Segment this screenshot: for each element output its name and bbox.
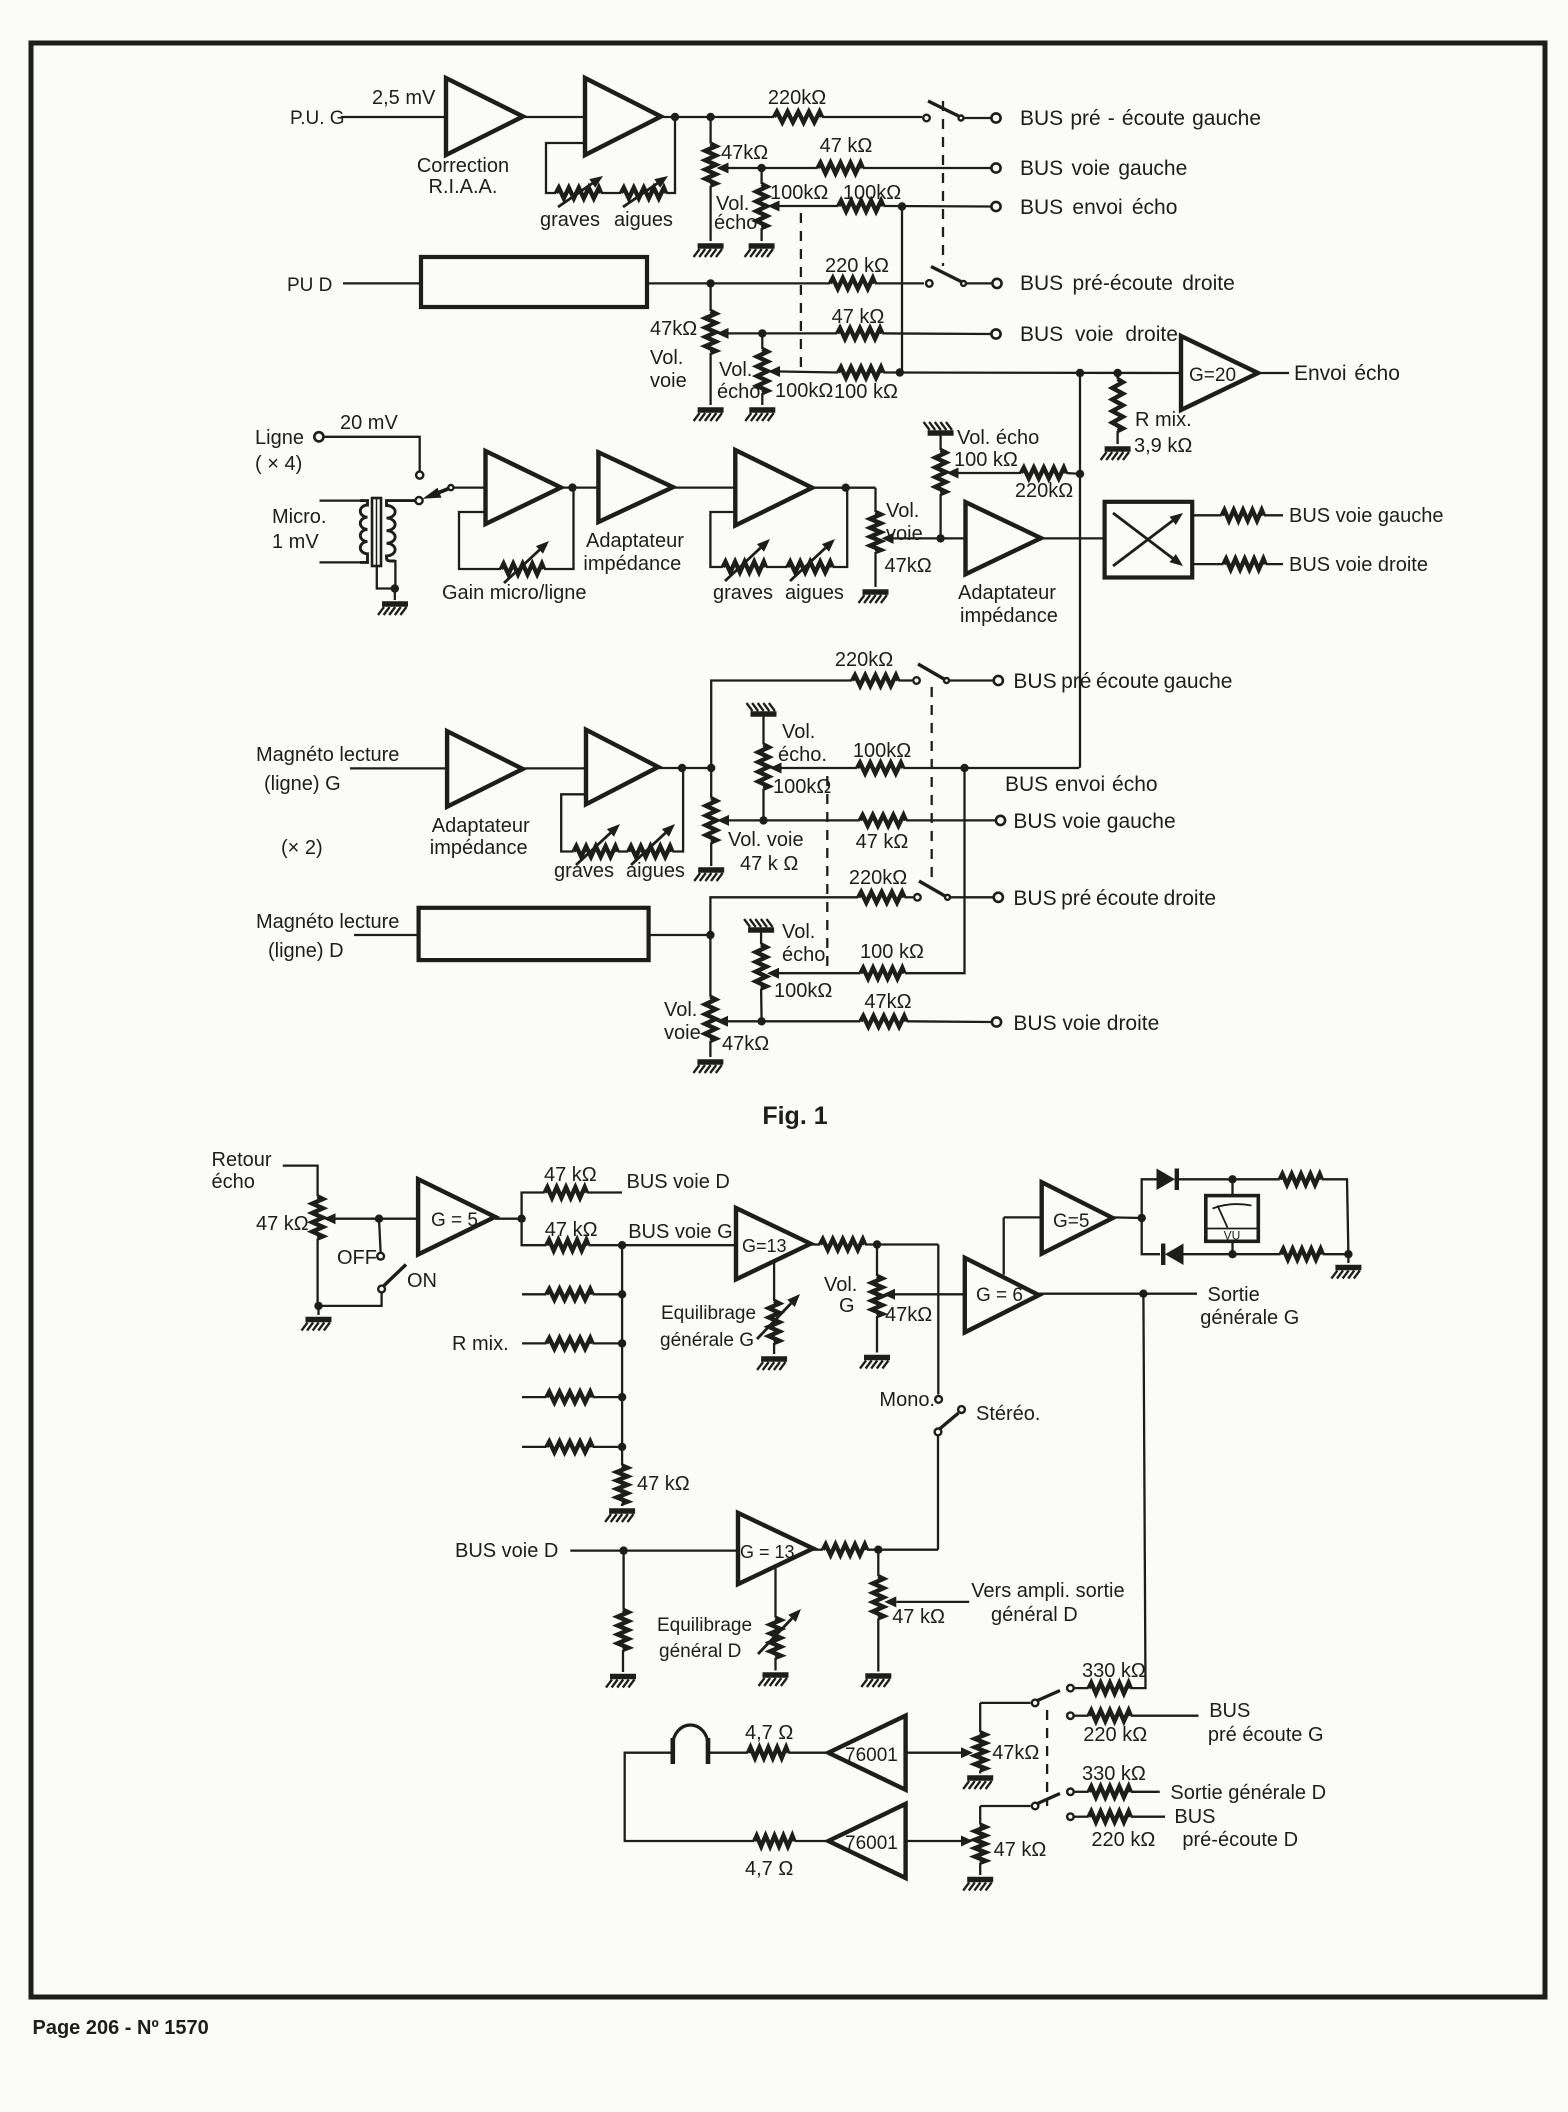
svg-text:47 kΩ: 47 kΩ bbox=[994, 1839, 1047, 1861]
wire Vol écho pot to junction bbox=[939, 494, 941, 538]
resistor 47kΩ voie droite magnéto bbox=[861, 1016, 907, 1027]
terminal BUS envoi écho bbox=[991, 202, 1000, 211]
wire to label bbox=[1264, 514, 1283, 516]
wire A5 output bbox=[812, 487, 875, 489]
junction magnéto G node bbox=[707, 764, 715, 772]
svg-text:impédance: impédance bbox=[430, 837, 528, 859]
svg-text:100 kΩ: 100 kΩ bbox=[834, 381, 898, 403]
wire to ground bbox=[1347, 1254, 1349, 1263]
wire wiper to 100k resistor envoi écho G bbox=[780, 205, 839, 207]
wire to ground bbox=[394, 589, 396, 601]
op-amp G=5 VU driver bbox=[1042, 1182, 1113, 1254]
matrix cross box bbox=[1105, 502, 1193, 578]
switch S5 contact 330k bbox=[1067, 1685, 1074, 1692]
svg-text:47kΩ: 47kΩ bbox=[992, 1742, 1039, 1764]
svg-text:graves: graves bbox=[713, 582, 773, 604]
svg-text:100 kΩ: 100 kΩ bbox=[860, 941, 924, 963]
wire node to Vol voie pot D bbox=[709, 283, 711, 311]
resistor 47kΩ voie gauche magnéto bbox=[860, 815, 906, 826]
junction R mix 4 bbox=[618, 1443, 626, 1451]
wiper arrow Vol voie magnéto G bbox=[717, 815, 729, 826]
wire down branch to 47k bbox=[522, 1219, 547, 1246]
ground below Vol écho pot D bbox=[745, 410, 775, 421]
resistor 220kΩ pré-écoute D bbox=[830, 278, 875, 289]
op-amp A2 tone stage G bbox=[585, 78, 661, 155]
wire node to Vol voie pot G bbox=[709, 117, 711, 144]
wire pot G bottom to ground bbox=[709, 186, 711, 241]
op-amp A8 tone stage magnéto bbox=[586, 730, 658, 805]
svg-text:100kΩ: 100kΩ bbox=[774, 980, 832, 1002]
terminal Ligne input bbox=[314, 432, 323, 441]
svg-text:47 k Ω: 47 k Ω bbox=[740, 853, 798, 875]
potentiometer 47kΩ Vol voie magnéto G bbox=[706, 798, 717, 842]
wire Ligne to selector upper contact bbox=[324, 437, 420, 471]
svg-text:G = 13: G = 13 bbox=[740, 1542, 795, 1562]
wire contact to 330k bbox=[1074, 1791, 1089, 1793]
potentiometer 47kΩ casque G bbox=[975, 1732, 986, 1770]
switch mono/stéréo lever bbox=[940, 1413, 959, 1429]
svg-text:Gain micro/ligne: Gain micro/ligne bbox=[442, 582, 587, 604]
potentiometer 100kΩ Vol écho D bbox=[757, 349, 768, 393]
svg-text:BUS voie droite: BUS voie droite bbox=[1289, 554, 1428, 576]
wire sortie générale G bbox=[1039, 1293, 1197, 1295]
wire pot to ground bbox=[876, 1316, 878, 1353]
svg-text:Adaptateur: Adaptateur bbox=[958, 582, 1056, 604]
transformer T1 primary coil bbox=[360, 501, 368, 563]
svg-text:(ligne) D: (ligne) D bbox=[268, 940, 344, 962]
switch S6 pivot contact bbox=[1032, 1803, 1039, 1810]
resistor 330kΩ sortie D bbox=[1089, 1787, 1131, 1798]
svg-text:BUS pré écoute droite: BUS pré écoute droite bbox=[1013, 887, 1216, 910]
junction A3 feedback/output bbox=[568, 483, 576, 491]
junction VU bridge input bbox=[1138, 1214, 1146, 1222]
svg-text:ON: ON bbox=[407, 1270, 437, 1292]
potentiometer 47kΩ sortie D bbox=[873, 1576, 884, 1618]
svg-text:BUS voie droite: BUS voie droite bbox=[1020, 323, 1178, 346]
wiper arrow Vol écho D bbox=[768, 366, 780, 377]
wire selector to amp A3 bbox=[453, 486, 485, 488]
switch ON contact bbox=[378, 1286, 385, 1293]
wiper arrow casque pot D bbox=[961, 1836, 973, 1847]
ground Vol G bbox=[860, 1358, 890, 1369]
ground retour écho bbox=[302, 1320, 332, 1331]
svg-text:BUS voie gauche: BUS voie gauche bbox=[1020, 157, 1187, 180]
svg-text:Stéréo.: Stéréo. bbox=[976, 1403, 1040, 1425]
svg-text:R mix.: R mix. bbox=[452, 1333, 509, 1355]
junction envoi écho D-link bbox=[960, 764, 968, 772]
wire 47k to terminal voie gauche bbox=[863, 167, 991, 169]
potentiometer aigues (G) in feedback bbox=[621, 188, 666, 199]
svg-text:BUS pré écoute gauche: BUS pré écoute gauche bbox=[1013, 670, 1232, 693]
switch S4 pivot contact bbox=[914, 894, 921, 901]
ground below Vol voie ligne bbox=[859, 592, 889, 603]
switch S5 contact 220k bbox=[1067, 1712, 1074, 1719]
wire ground to Vol écho pot magnéto G bbox=[762, 714, 764, 745]
wire to terminal voie droite magnéto bbox=[907, 1020, 992, 1023]
wire wiper to amp G=5 bbox=[336, 1218, 419, 1220]
terminal BUS voie gauche bbox=[991, 163, 1000, 172]
svg-text:BUS voie D: BUS voie D bbox=[455, 1540, 558, 1562]
trimmer arrow équilibrage D bbox=[758, 1618, 792, 1654]
junction wiper / Vol écho pot D bbox=[758, 329, 766, 337]
wire block D to 220k bbox=[647, 282, 830, 284]
junction Vol G pot bbox=[873, 1240, 881, 1248]
potentiometer 47kΩ Vol G bbox=[872, 1276, 883, 1316]
wiper arrow Vol écho magnéto G bbox=[770, 763, 782, 774]
wire bus D down to 47k bbox=[622, 1551, 624, 1610]
svg-text:(× 2): (× 2) bbox=[281, 837, 323, 859]
op-amp A6 adaptateur impédance 2 bbox=[966, 502, 1042, 574]
wire G=5 output bbox=[495, 1218, 521, 1220]
resistor 220kΩ to BUS pré écoute G bbox=[1089, 1710, 1131, 1721]
svg-text:G=13: G=13 bbox=[742, 1236, 787, 1256]
junction feedback/output node bbox=[671, 113, 679, 121]
wire S1 to bus terminal bbox=[964, 117, 992, 119]
wire wiper to 47k resistor voie G bbox=[729, 167, 818, 169]
op-amp G=13 voie G bbox=[736, 1208, 811, 1279]
wire wiper to 47k voie gauche bbox=[729, 819, 860, 821]
wire pot G top bbox=[979, 1703, 981, 1732]
trimmer arrow aigues ligne bbox=[790, 548, 826, 581]
resistor VU bridge bottom bbox=[1281, 1249, 1323, 1260]
op-amp G=13 voie D bbox=[738, 1513, 813, 1584]
switch S5 lever bbox=[1038, 1691, 1061, 1701]
wire between graves and aigues bbox=[601, 192, 621, 194]
svg-text:100kΩ: 100kΩ bbox=[853, 740, 911, 762]
svg-text:Retour: Retour bbox=[212, 1149, 272, 1171]
svg-text:BUS: BUS bbox=[1209, 1700, 1250, 1722]
junction OFF/ON switch tap bbox=[375, 1215, 383, 1223]
svg-text:Vol.: Vol. bbox=[664, 999, 697, 1021]
wire A4 to A5 bbox=[673, 486, 735, 488]
wire headphone right to 4,7Ω bbox=[708, 1752, 748, 1754]
wire Vol voie pot D to ground bbox=[709, 353, 711, 405]
resistor 100kΩ envoi écho D bbox=[838, 367, 883, 378]
svg-text:220kΩ: 220kΩ bbox=[768, 87, 826, 109]
junction Vol écho pot bottom magnéto D bbox=[757, 1017, 765, 1025]
junction sortie G / pré écoute feed bbox=[1139, 1290, 1147, 1298]
resistor 220kΩ pré-écoute G bbox=[774, 112, 822, 123]
junction envoi écho bus D bbox=[896, 368, 904, 376]
wiper arrow Vol écho G bbox=[768, 201, 780, 212]
junction ground node bbox=[314, 1302, 322, 1310]
svg-text:1 mV: 1 mV bbox=[272, 531, 319, 553]
amplifier 76001 casque D bbox=[828, 1804, 905, 1878]
ground below R mix bbox=[1101, 449, 1131, 460]
ground below Vol voie magnéto D bbox=[693, 1062, 723, 1073]
svg-text:220 kΩ: 220 kΩ bbox=[1083, 1724, 1147, 1746]
wire pot to ground bbox=[979, 1863, 981, 1875]
resistor after G=13 G bbox=[820, 1239, 865, 1250]
wire to switch S3 bbox=[898, 679, 912, 681]
svg-text:47 kΩ: 47 kΩ bbox=[545, 1219, 598, 1241]
potentiometer 100kΩ Vol écho ligne bbox=[935, 450, 946, 494]
wire to Vol écho pot G bbox=[760, 168, 762, 184]
resistor 47kΩ to BUS voie G bbox=[547, 1240, 589, 1251]
ground équilibrage D bbox=[759, 1675, 789, 1686]
wire BUS voie G row to amp G=13 bbox=[589, 1244, 737, 1246]
svg-text:G: G bbox=[839, 1295, 855, 1317]
resistor R mix 4 bbox=[547, 1442, 593, 1453]
wire pot bottom down bbox=[316, 1238, 318, 1306]
switch ON lever bbox=[384, 1265, 407, 1287]
wire diode to resistor bottom bbox=[1184, 1253, 1281, 1255]
svg-text:Fig. 1: Fig. 1 bbox=[762, 1102, 827, 1130]
svg-text:Vol.: Vol. bbox=[824, 1274, 857, 1296]
svg-text:Mono.: Mono. bbox=[879, 1389, 935, 1411]
svg-text:220kΩ: 220kΩ bbox=[1015, 480, 1073, 502]
wire to Vol voie pot ligne bbox=[874, 488, 876, 512]
wiper arrow Vol écho magnéto D bbox=[767, 968, 779, 979]
terminal BUS pré-écoute droite bbox=[992, 279, 1001, 288]
resistor 47kΩ voie gauche bbox=[818, 163, 863, 174]
svg-text:Vol.: Vol. bbox=[886, 500, 919, 522]
wiper arrow Vol voie D bbox=[717, 328, 729, 339]
junction VU bridge common bbox=[1344, 1250, 1352, 1258]
wire feedback right leg to output bbox=[666, 117, 675, 193]
potentiometer 47kΩ retour écho bbox=[312, 1196, 323, 1238]
wire A6 to matrix bbox=[1041, 537, 1105, 539]
wire A7 to A8 bbox=[523, 767, 586, 769]
wire retour écho to pot bbox=[283, 1166, 318, 1197]
svg-text:générale G: générale G bbox=[660, 1330, 754, 1351]
wire contact to 330k bbox=[1074, 1687, 1089, 1689]
junction R mix 2 bbox=[618, 1339, 626, 1347]
trimmer arrow aigues magnéto bbox=[631, 833, 666, 865]
svg-text:Vol. voie: Vol. voie bbox=[728, 829, 804, 851]
svg-text:100 kΩ: 100 kΩ bbox=[954, 449, 1018, 471]
op-amp A5 tone stage ligne bbox=[735, 450, 812, 526]
wire wiper to 220k bbox=[959, 472, 1022, 474]
svg-text:BUS envoi écho: BUS envoi écho bbox=[1005, 773, 1158, 796]
switch S6 contact 220k bbox=[1067, 1813, 1074, 1820]
switch OFF contact bbox=[377, 1253, 384, 1260]
svg-text:BUS envoi écho: BUS envoi écho bbox=[1020, 196, 1177, 219]
selector contact Micro bbox=[415, 497, 422, 504]
svg-text:impédance: impédance bbox=[583, 553, 681, 575]
wire pot to ground bbox=[773, 1343, 775, 1354]
wire VU meter top lead bbox=[1231, 1179, 1233, 1195]
svg-text:330 kΩ: 330 kΩ bbox=[1082, 1660, 1146, 1682]
wire A3 feedback right leg bbox=[544, 488, 574, 569]
svg-text:Vol.: Vol. bbox=[719, 359, 752, 381]
resistor 220kΩ pré écoute D magnéto bbox=[858, 892, 904, 903]
wire envoi écho line to amp G=20 bbox=[883, 371, 1181, 374]
svg-text:générale G: générale G bbox=[1200, 1307, 1299, 1329]
wire 330k to label bbox=[1131, 1791, 1160, 1793]
svg-text:Vers ampli. sortie: Vers ampli. sortie bbox=[971, 1580, 1124, 1602]
selector pivot bbox=[448, 485, 453, 490]
ground mixing bus G bbox=[605, 1511, 635, 1522]
resistor 100kΩ envoi écho G bbox=[838, 201, 883, 212]
ground below Vol voie pot D bbox=[694, 410, 724, 421]
switch S1 lever bbox=[928, 101, 959, 116]
svg-text:220 kΩ: 220 kΩ bbox=[1091, 1829, 1155, 1851]
svg-text:4,7 Ω: 4,7 Ω bbox=[745, 1858, 793, 1880]
resistor 47kΩ mixing bus D bbox=[618, 1610, 629, 1650]
switch S3 lever bbox=[918, 664, 944, 679]
ground casque pot G bbox=[963, 1778, 993, 1789]
trimmer arrow équilibrage G bbox=[757, 1303, 791, 1339]
svg-text:Micro.: Micro. bbox=[272, 506, 326, 528]
terminal BUS voie gauche (magnéto) bbox=[996, 816, 1005, 825]
junction envoi écho vertical bus bbox=[1076, 369, 1084, 377]
switch S2 pivot contact bbox=[926, 280, 933, 287]
svg-text:écho: écho bbox=[212, 1171, 255, 1193]
wire R mix 3 to bus bbox=[593, 1396, 623, 1398]
wire S2 to terminal bbox=[966, 282, 992, 284]
svg-text:3,9 kΩ: 3,9 kΩ bbox=[1134, 435, 1192, 457]
wire wiper to amp A6 bbox=[894, 537, 966, 539]
headphone symbol bbox=[673, 1738, 708, 1764]
svg-text:écho: écho bbox=[714, 212, 757, 234]
wire A8 feedback left leg bbox=[561, 794, 586, 851]
svg-text:47 kΩ: 47 kΩ bbox=[637, 1473, 690, 1495]
svg-text:220 kΩ: 220 kΩ bbox=[825, 255, 889, 277]
resistor 100kΩ envoi écho magnéto D bbox=[861, 968, 905, 979]
wire resistor to ground bbox=[621, 1504, 623, 1507]
svg-text:Equilibrage: Equilibrage bbox=[657, 1615, 752, 1636]
wire matrix bottom output bbox=[1192, 563, 1223, 565]
wire micro primary top lead bbox=[320, 499, 361, 501]
svg-text:47 kΩ: 47 kΩ bbox=[544, 1164, 597, 1186]
wire stéréo pivot down to voie D row bbox=[937, 1435, 939, 1549]
svg-text:(ligne) G: (ligne) G bbox=[264, 773, 341, 795]
ground sortie D pot bbox=[861, 1676, 891, 1687]
wire 220k to switch S2 bbox=[875, 282, 924, 284]
op-amp G=5 retour écho bbox=[418, 1179, 495, 1254]
svg-text:47kΩ: 47kΩ bbox=[885, 555, 932, 577]
potentiometer graves (G) in feedback bbox=[556, 188, 601, 199]
wire magnéto D input bbox=[354, 934, 419, 936]
wiper arrow Vol voie ligne bbox=[882, 533, 894, 544]
junction VU meter top bbox=[1228, 1175, 1236, 1183]
svg-text:330 kΩ: 330 kΩ bbox=[1082, 1763, 1146, 1785]
svg-text:Magnéto lecture: Magnéto lecture bbox=[256, 744, 399, 766]
svg-text:écho.: écho. bbox=[778, 744, 827, 766]
wire R mix stub 4 bbox=[522, 1446, 547, 1448]
diode D1 (top, anode left) bbox=[1157, 1169, 1176, 1191]
trimmer arrow graves ligne bbox=[725, 548, 761, 581]
svg-text:G = 5: G = 5 bbox=[431, 1210, 478, 1231]
wire R mix 2 to bus bbox=[593, 1342, 623, 1344]
wire to Vol écho pot D bbox=[761, 333, 763, 349]
wire ground to Vol écho pot ligne bbox=[939, 433, 941, 450]
svg-text:Equilibrage: Equilibrage bbox=[661, 1303, 756, 1324]
svg-text:VU: VU bbox=[1224, 1229, 1241, 1243]
wire to équilibrage pot D bbox=[774, 1567, 776, 1618]
wire G=20 output bbox=[1258, 372, 1289, 374]
svg-text:47kΩ: 47kΩ bbox=[650, 318, 697, 340]
svg-text:100kΩ: 100kΩ bbox=[773, 776, 831, 798]
VU meter M1 bbox=[1206, 1196, 1259, 1242]
wire up branch to 47k bbox=[522, 1193, 545, 1219]
wire S4 to terminal bbox=[950, 896, 993, 898]
wire amp input from pot wiper D bbox=[906, 1840, 961, 1842]
svg-text:écho: écho bbox=[782, 944, 825, 966]
wire R mix 1 to bus bbox=[593, 1293, 623, 1295]
svg-text:BUS pré - écoute gauche: BUS pré - écoute gauche bbox=[1020, 107, 1261, 130]
svg-text:G = 6: G = 6 bbox=[976, 1285, 1023, 1306]
wire 100k to terminal envoi écho bbox=[883, 205, 991, 208]
selector contact Ligne bbox=[416, 472, 423, 479]
svg-text:220kΩ: 220kΩ bbox=[849, 867, 907, 889]
block equivalent channel magnéto D (empty box) bbox=[419, 908, 649, 960]
svg-text:47kΩ: 47kΩ bbox=[722, 1033, 769, 1055]
wire node down to Vol voie pot magnéto G bbox=[710, 768, 712, 798]
wiper arrow Vol voie magnéto D bbox=[716, 1016, 728, 1027]
potentiometer aigues (ligne) bbox=[788, 562, 833, 573]
junction magnéto D node bbox=[706, 931, 714, 939]
wire sortie G down to 330k switch row bbox=[1130, 1294, 1145, 1688]
wire to label bbox=[1266, 563, 1284, 565]
wiper arrow sortie D bbox=[884, 1596, 896, 1607]
wire resistor to mono branch bbox=[865, 1243, 938, 1245]
svg-text:général D: général D bbox=[659, 1641, 741, 1662]
wire ground to Vol écho pot magnéto D bbox=[760, 930, 762, 945]
svg-text:( × 4): ( × 4) bbox=[255, 453, 302, 475]
matrix cross arrow up bbox=[1113, 521, 1173, 566]
junction envoi écho bus G bbox=[898, 202, 906, 210]
wire G=5 output to bridge bbox=[1113, 1216, 1142, 1219]
svg-text:100kΩ: 100kΩ bbox=[775, 380, 833, 402]
wire corner envoi écho bus bbox=[1078, 766, 1080, 769]
wire 220k to label bbox=[1131, 1816, 1165, 1818]
transformer T1 core bbox=[372, 498, 381, 566]
matrix cross arrow down bbox=[1113, 513, 1173, 558]
junction R mix 1 bbox=[618, 1290, 626, 1298]
wire contact to 220k bbox=[1074, 1816, 1089, 1818]
block equivalent channel D (empty box) bbox=[421, 257, 647, 307]
svg-text:20 mV: 20 mV bbox=[340, 412, 398, 434]
wiper arrow casque pot G bbox=[961, 1747, 973, 1758]
wire wiper to 100k envoi écho bbox=[782, 767, 858, 769]
svg-text:Vol.: Vol. bbox=[782, 721, 815, 743]
wire R mix 4 to bus bbox=[593, 1446, 623, 1448]
junction wiper / Vol écho pot G bbox=[757, 164, 765, 172]
switch Mono contact bbox=[935, 1396, 942, 1403]
svg-text:Page 206 - Nº 1570: Page 206 - Nº 1570 bbox=[33, 2017, 209, 2039]
trimmer arrow aigues G bbox=[623, 183, 657, 207]
wire to équilibrage pot G bbox=[773, 1262, 775, 1301]
gang dashed link casque switches bbox=[1046, 1710, 1048, 1806]
wiper arrow Vol voie G bbox=[717, 163, 729, 174]
wire A1 to A2 bbox=[523, 116, 585, 118]
potentiometer 47kΩ Vol voie G bbox=[705, 144, 716, 186]
potentiometer équilibrage générale G bbox=[769, 1301, 780, 1343]
wire matrix top output bbox=[1192, 514, 1222, 516]
svg-text:BUS voie gauche: BUS voie gauche bbox=[1289, 505, 1444, 527]
resistor R mix 3 bbox=[547, 1392, 593, 1403]
wire to Mono contact bbox=[937, 1245, 939, 1395]
wire A2 feedback left leg bbox=[546, 143, 585, 193]
svg-text:47 kΩ: 47 kΩ bbox=[820, 135, 873, 157]
wire wiper to 100k envoi écho D bbox=[780, 372, 838, 373]
wire resistor to amp 76001 D bbox=[794, 1840, 828, 1842]
wire to R mix resistor bbox=[1116, 373, 1118, 379]
wire amp to resistor bbox=[811, 1243, 820, 1245]
wire envoi écho bus vertical G→D bbox=[901, 207, 903, 373]
wire R mix to ground bbox=[1116, 431, 1118, 444]
op-amp G=20 envoi écho bbox=[1181, 336, 1258, 410]
trimmer arrow gain micro/ligne bbox=[504, 550, 540, 583]
gang dashed link Vol écho magnéto G–D bbox=[826, 776, 828, 966]
wire tap to amp G=5 VU bbox=[1004, 1216, 1042, 1218]
wire block to node bbox=[649, 934, 711, 936]
wire pot to ground bbox=[709, 1041, 711, 1057]
svg-text:47kΩ: 47kΩ bbox=[885, 1304, 932, 1326]
svg-text:Vol. écho: Vol. écho bbox=[957, 427, 1039, 449]
